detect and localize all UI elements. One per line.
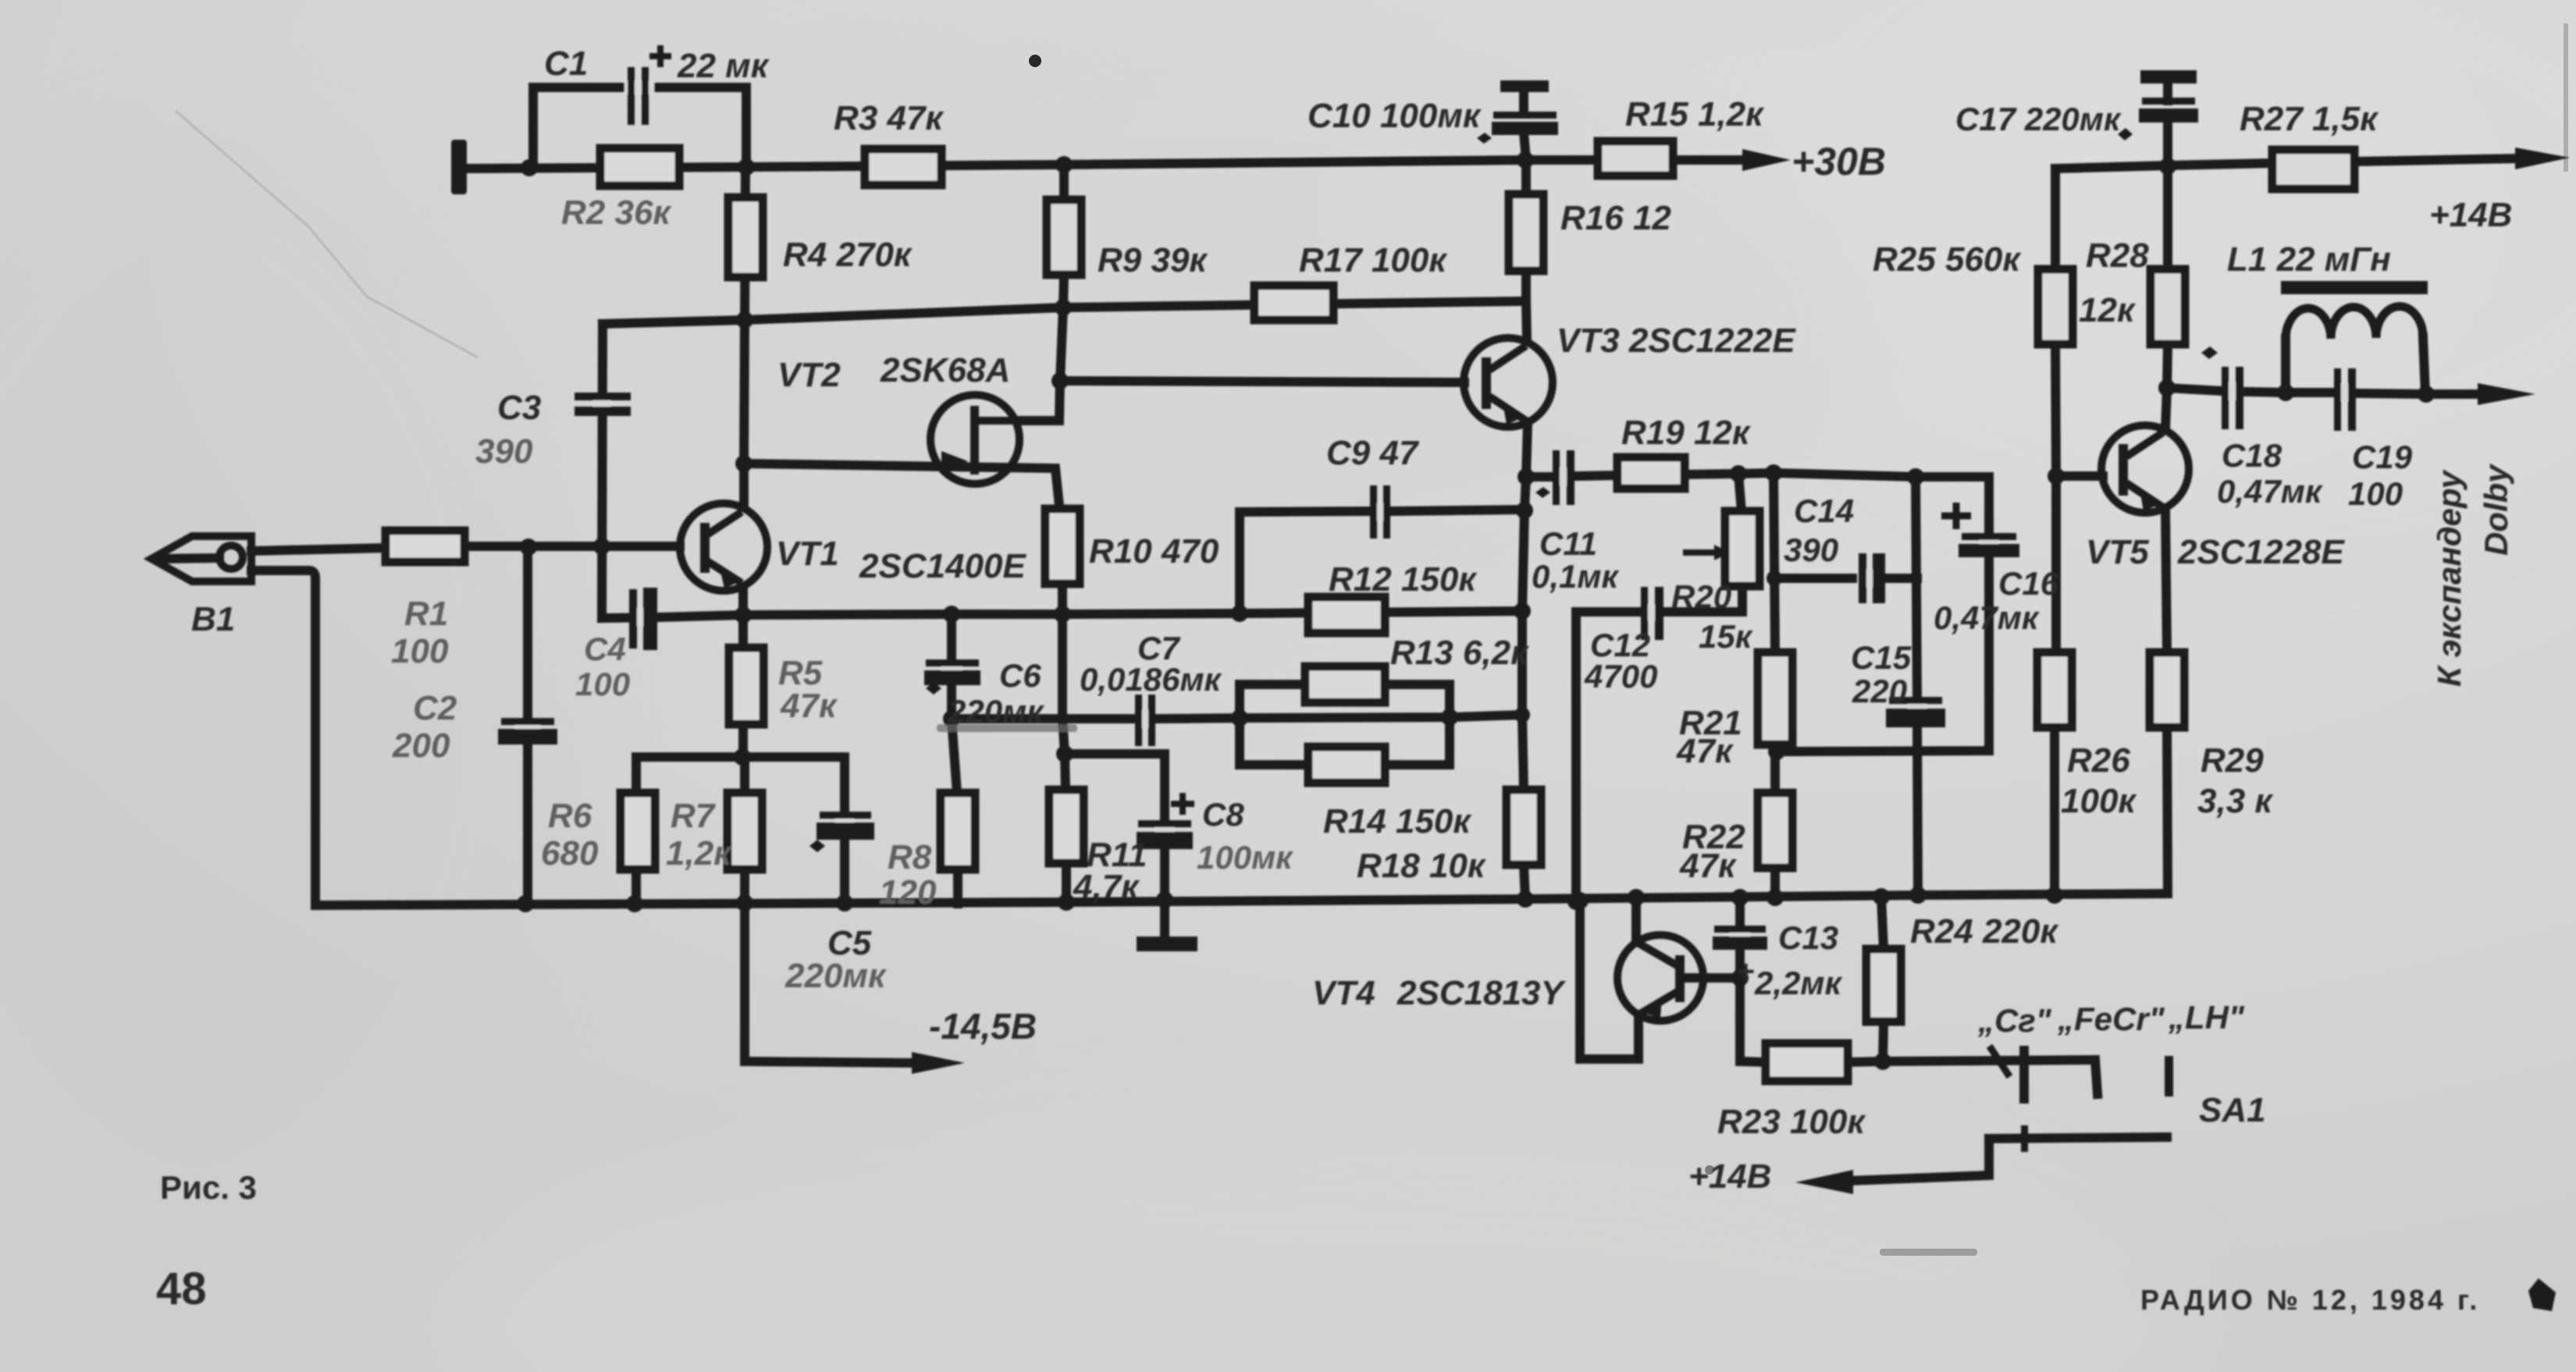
svg-text:C4: C4: [584, 631, 626, 667]
svg-text:R8: R8: [888, 838, 932, 876]
svg-text:L1 22 мГн: L1 22 мГн: [2227, 240, 2391, 279]
svg-text:R27 1,5к: R27 1,5к: [2240, 100, 2379, 138]
svg-text:РАДИО № 12, 1984 г.: РАДИО № 12, 1984 г.: [2140, 1284, 2480, 1316]
svg-text:R7: R7: [671, 797, 717, 835]
svg-text:VT1: VT1: [776, 535, 839, 573]
svg-text:220мк: 220мк: [785, 957, 888, 995]
svg-text:+14В: +14В: [1688, 1157, 1771, 1196]
svg-text:R4 270к: R4 270к: [783, 236, 913, 274]
svg-text:R20: R20: [1671, 578, 1731, 615]
svg-text:VT2: VT2: [777, 356, 841, 394]
svg-text:2SC1228Е: 2SC1228Е: [2177, 533, 2345, 571]
svg-text:„Сг": „Сг": [1977, 1002, 2052, 1039]
svg-text:R13 6,2к: R13 6,2к: [1390, 634, 1530, 672]
svg-text:47к: 47к: [780, 687, 838, 725]
svg-text:R23 100к: R23 100к: [1717, 1103, 1866, 1141]
svg-text:Dolby: Dolby: [2478, 463, 2514, 556]
svg-text:390: 390: [1784, 531, 1838, 568]
svg-text:„FeCr": „FeCr": [2057, 1001, 2165, 1037]
svg-text:R15 1,2к: R15 1,2к: [1625, 95, 1765, 133]
svg-text:-14,5В: -14,5В: [929, 1006, 1037, 1047]
svg-text:C10 100мк: C10 100мк: [1308, 97, 1482, 135]
svg-text:R3 47к: R3 47к: [834, 99, 945, 137]
svg-text:C19: C19: [2352, 439, 2413, 475]
svg-text:2SC1813Y: 2SC1813Y: [1397, 974, 1566, 1012]
svg-text:R26: R26: [2067, 741, 2130, 780]
svg-text:+14В: +14В: [2429, 196, 2512, 234]
svg-text:120: 120: [879, 873, 937, 912]
svg-text:R29: R29: [2201, 741, 2264, 780]
svg-text:22 мк: 22 мк: [677, 47, 770, 85]
svg-text:R16 12: R16 12: [1560, 199, 1671, 237]
svg-text:R12 150к: R12 150к: [1329, 560, 1478, 599]
svg-text:48: 48: [156, 1264, 207, 1314]
svg-text:390: 390: [475, 432, 533, 471]
svg-text:100мк: 100мк: [1197, 839, 1293, 876]
svg-text:R18 10к: R18 10к: [1357, 847, 1487, 885]
svg-text:C18: C18: [2222, 437, 2282, 474]
svg-text:VT3 2SC1222Е: VT3 2SC1222Е: [1557, 322, 1796, 360]
svg-text:+: +: [1736, 954, 1754, 989]
svg-text:47к: 47к: [1676, 732, 1735, 770]
svg-text:47к: 47к: [1679, 847, 1738, 885]
svg-text:C17 220мк: C17 220мк: [1955, 101, 2122, 137]
svg-text:4,7к: 4,7к: [1073, 868, 1140, 906]
svg-text:C16: C16: [1998, 565, 2059, 602]
svg-text:R2 36к: R2 36к: [561, 194, 672, 232]
svg-text:220мк: 220мк: [947, 693, 1044, 730]
svg-text:R19 12к: R19 12к: [1621, 414, 1752, 452]
svg-text:C3: C3: [497, 389, 541, 427]
svg-text:2,2мк: 2,2мк: [1754, 965, 1842, 1001]
svg-text:В1: В1: [191, 600, 235, 638]
svg-text:3,3 к: 3,3 к: [2197, 782, 2274, 820]
svg-text:2SC1400Е: 2SC1400Е: [859, 547, 1026, 585]
svg-text:C6: C6: [999, 657, 1041, 694]
svg-text:100: 100: [575, 666, 630, 702]
svg-text:VT4: VT4: [1312, 974, 1375, 1012]
svg-text:4700: 4700: [1584, 658, 1657, 695]
svg-text:R9 39к: R9 39к: [1098, 241, 1208, 279]
svg-text:R25 560к: R25 560к: [1873, 240, 2022, 279]
svg-text:12к: 12к: [2079, 291, 2137, 329]
svg-text:0,47мк: 0,47мк: [2217, 473, 2323, 510]
svg-text:К экспандеру: К экспандеру: [2431, 468, 2467, 687]
svg-text:0,1мк: 0,1мк: [1532, 558, 1619, 595]
svg-text:2SK68А: 2SK68А: [880, 351, 1010, 389]
svg-text:VT5: VT5: [2086, 533, 2149, 571]
svg-text:680: 680: [541, 834, 599, 873]
svg-text:1,2к: 1,2к: [666, 834, 733, 873]
svg-text:200: 200: [392, 727, 450, 765]
svg-text:C2: C2: [413, 689, 457, 727]
svg-text:0,47мк: 0,47мк: [1934, 599, 2040, 636]
svg-text:R1: R1: [404, 595, 448, 633]
svg-text:„LH": „LH": [2168, 999, 2245, 1036]
svg-text:C8: C8: [1202, 796, 1244, 833]
svg-text:R10 470: R10 470: [1089, 532, 1219, 570]
svg-text:C15: C15: [1851, 639, 1912, 676]
svg-text:C13: C13: [1778, 919, 1838, 956]
svg-text:Рис. 3: Рис. 3: [160, 1169, 257, 1206]
svg-text:220: 220: [1852, 673, 1907, 709]
svg-text:0,0186мк: 0,0186мк: [1080, 661, 1222, 698]
svg-text:100к: 100к: [2061, 782, 2137, 820]
svg-text:15к: 15к: [1699, 618, 1753, 655]
svg-text:+30В: +30В: [1791, 140, 1886, 183]
svg-text:R28: R28: [2086, 236, 2149, 275]
svg-text:SA1: SA1: [2199, 1091, 2266, 1129]
svg-text:C9 47: C9 47: [1326, 434, 1420, 472]
svg-text:C1: C1: [544, 44, 588, 83]
svg-text:C14: C14: [1794, 492, 1854, 529]
svg-text:R17 100к: R17 100к: [1299, 241, 1448, 279]
svg-text:100: 100: [2348, 475, 2403, 512]
svg-text:R14 150к: R14 150к: [1323, 802, 1472, 841]
svg-text:100: 100: [391, 632, 449, 670]
svg-text:R6: R6: [548, 797, 592, 835]
svg-text:C11: C11: [1539, 525, 1597, 562]
svg-text:R24 220к: R24 220к: [1910, 912, 2059, 951]
